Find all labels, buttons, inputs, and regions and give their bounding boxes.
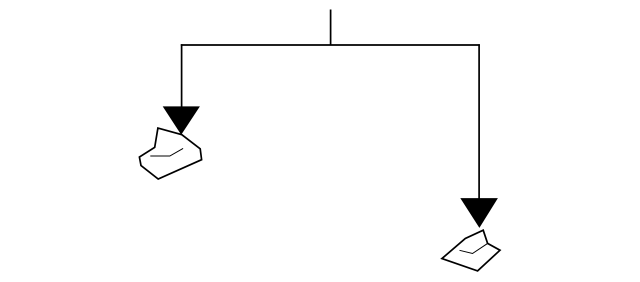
wire: top stem xyxy=(330,10,332,46)
arrowhead right xyxy=(460,198,498,228)
wire: right drop xyxy=(478,44,480,199)
wire: horizontal bar xyxy=(181,44,480,46)
node: folded sheet right xyxy=(442,230,500,271)
wire: left drop xyxy=(181,44,183,108)
node: crumpled paper left xyxy=(139,128,201,179)
arrowhead left xyxy=(163,106,200,134)
